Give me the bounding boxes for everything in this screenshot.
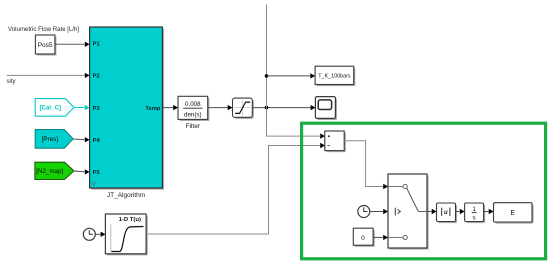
From tag [Cal_C] — [35, 99, 74, 117]
transfer-fcn block Filter — [178, 96, 209, 130]
wire Cal_C to P3 (cyan) — [74, 105, 90, 110]
lookup table 1-D T(u) — [105, 214, 147, 255]
svg-text:P5: P5 — [93, 170, 101, 176]
clock Clock1 — [83, 228, 95, 240]
wire N2_map to P5 — [74, 169, 90, 174]
wire divide to switch input 1 — [344, 141, 388, 189]
annotation green box — [302, 123, 546, 259]
arrow into divide input 2 — [320, 143, 325, 148]
svg-text:Volumetric Flow Rate [L/h]: Volumetric Flow Rate [L/h] — [8, 26, 79, 33]
switch block — [388, 174, 429, 250]
svg-text:[Pres]: [Pres] — [42, 136, 59, 143]
svg-text:P1: P1 — [93, 41, 101, 47]
clock Clock2 — [358, 206, 370, 218]
port 3 stub and contact — [388, 236, 403, 238]
svg-text:JT_Algorithm: JT_Algorithm — [107, 192, 145, 199]
subsystem JT_Algorithm — [90, 27, 165, 199]
wire abs to integrator — [456, 209, 465, 214]
junction dot at saturation line — [265, 106, 269, 110]
svg-text:den(s): den(s) — [184, 112, 202, 119]
svg-text:P4: P4 — [93, 138, 101, 144]
svg-text:T_K_100bars: T_K_100bars — [318, 74, 351, 80]
wire Filter to Saturation — [208, 105, 233, 110]
block Pos5 — [35, 35, 56, 56]
svg-text:Temp: Temp — [145, 106, 160, 112]
junction dot at T_K branch — [265, 74, 269, 78]
svg-text:0: 0 — [361, 235, 365, 242]
integrator 1/s — [465, 203, 486, 223]
lookup wire from 1-D T(u) to divide input 2 — [146, 146, 320, 235]
switch arm — [407, 188, 419, 211]
wire Pos5 to P1 — [55, 42, 90, 47]
constant 0 — [353, 228, 374, 247]
svg-text:1-D T(u): 1-D T(u) — [119, 217, 141, 223]
wire constant to switch port 3 — [373, 235, 388, 240]
svg-text:u: u — [444, 210, 448, 216]
port 1 stub and contact — [388, 186, 403, 188]
wire Saturation to Scope through junction — [252, 105, 315, 110]
svg-text:P2: P2 — [93, 74, 100, 80]
From tag [Pres] — [35, 130, 73, 149]
wire Clock1 to lookup — [95, 232, 105, 237]
vertical trunk wire to divide input 1 — [267, 5, 321, 137]
variant down-arrow badge — [92, 181, 96, 186]
svg-text:Filter: Filter — [186, 123, 201, 130]
svg-text:0.008: 0.008 — [185, 101, 201, 108]
arrow into divide input 1 — [320, 133, 325, 138]
saturation block — [233, 98, 254, 119]
svg-text:Pos5: Pos5 — [38, 42, 53, 49]
wire sity to P2 — [7, 73, 90, 78]
svg-text:[N2_map]: [N2_map] — [36, 168, 63, 175]
wire branch to T_K_100bars — [267, 73, 316, 78]
svg-text:[Cal_C]: [Cal_C] — [39, 105, 61, 112]
svg-text:sity: sity — [7, 79, 16, 85]
svg-text:s: s — [473, 215, 476, 222]
scope block — [315, 97, 337, 120]
goto block T_K_100bars — [315, 66, 355, 86]
svg-text:E: E — [510, 210, 515, 217]
wire switch to abs — [427, 209, 437, 214]
wire integrator to E — [484, 209, 494, 214]
block E — [494, 203, 534, 224]
wire Temp to Filter — [162, 105, 178, 110]
abs block |u| — [437, 203, 458, 223]
threshold mark — [394, 208, 396, 216]
wire Clock2 to switch port 2 — [370, 209, 388, 214]
svg-text:P3: P3 — [93, 106, 101, 112]
wire Pres to P4 — [73, 137, 90, 142]
divide block — [325, 131, 346, 152]
From tag [N2_map] — [35, 162, 74, 179]
svg-text:1: 1 — [472, 206, 476, 213]
